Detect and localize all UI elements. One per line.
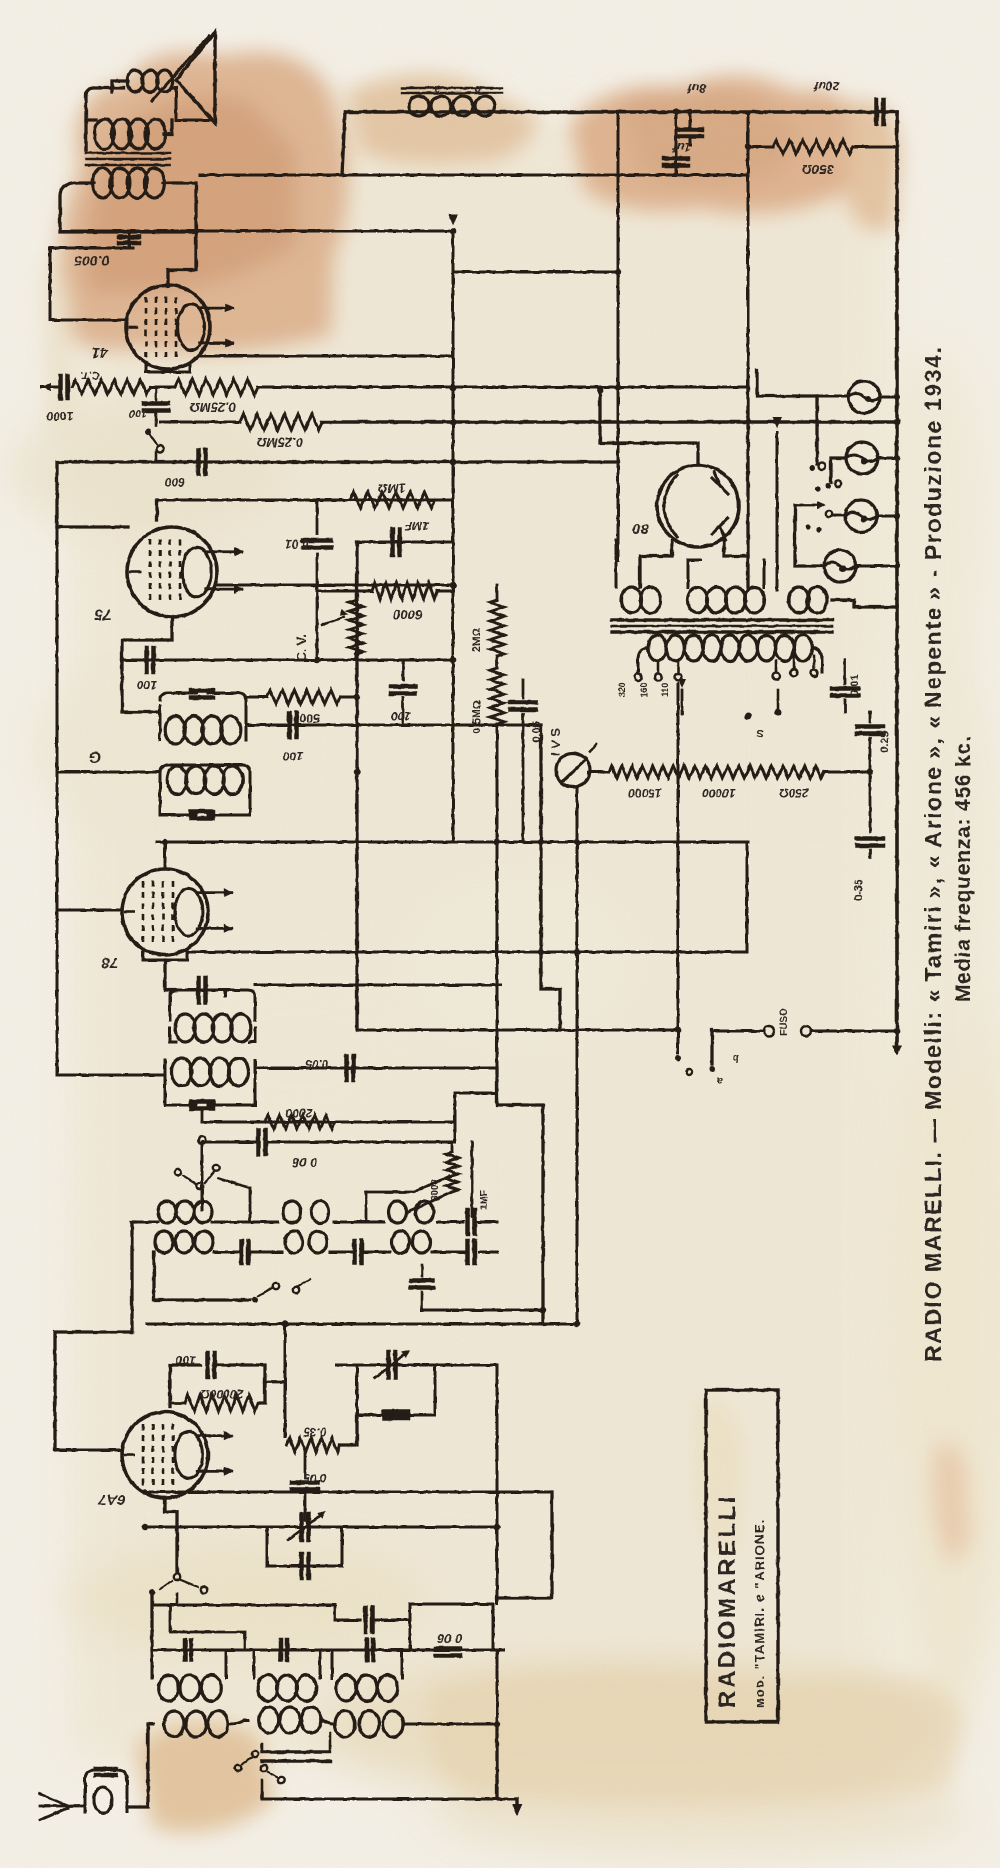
capacitor C2 8uf bbox=[689, 112, 692, 128]
wire x497 right column bbox=[496, 1365, 499, 1604]
wire y1650 long bbox=[152, 1649, 504, 1652]
wire rail step down bbox=[342, 112, 345, 175]
junction dots bbox=[894, 394, 900, 400]
svg-text:b: b bbox=[733, 1052, 739, 1063]
capacitor L9 cap bbox=[279, 1640, 284, 1660]
power transformer T2 primary winding bbox=[648, 635, 666, 661]
oscillator coil L3 row1 bbox=[283, 1201, 301, 1223]
capacitor osc row1 1MF bbox=[465, 1210, 470, 1234]
svg-text:1MF: 1MF bbox=[404, 519, 429, 533]
svg-text:a: a bbox=[717, 1075, 723, 1086]
output transformer T1 secondary box bbox=[60, 183, 196, 232]
wire y231 to OPT bbox=[60, 230, 453, 233]
lamp P1 bbox=[848, 381, 880, 413]
antenna primary coils bbox=[164, 1711, 184, 1737]
wire row2 right vert bbox=[496, 1068, 498, 1222]
svg-text:10000: 10000 bbox=[702, 786, 736, 800]
wire riser x366 bbox=[365, 1192, 368, 1222]
svg-text:100: 100 bbox=[128, 407, 147, 419]
wire tube78 grid bbox=[57, 909, 122, 912]
svg-text:C.T.: C.T. bbox=[80, 369, 100, 381]
IF T3 primary winding bbox=[167, 766, 187, 794]
antenna coil box bbox=[85, 1770, 127, 1812]
wire switch bus to coil bbox=[330, 1760, 338, 1762]
svg-text:1000: 1000 bbox=[46, 409, 73, 423]
wire x500 block bbox=[497, 1068, 543, 1324]
fuse FUSO bbox=[712, 1030, 764, 1033]
svg-text:110: 110 bbox=[660, 683, 670, 698]
svg-text:100: 100 bbox=[283, 749, 303, 763]
wire y1527 bbox=[145, 1526, 497, 1529]
wire 6A7 top to x285 bbox=[284, 1324, 287, 1437]
wire x678 mains down bbox=[677, 684, 680, 1030]
wire y1122 AVC bbox=[202, 1121, 455, 1124]
capacitor C17 0.05 bbox=[344, 1056, 349, 1080]
potentiometer C.V. bbox=[349, 600, 363, 654]
wire osc outer left bbox=[132, 1222, 135, 1332]
lamp P2 bbox=[846, 442, 878, 474]
capacitor row2 a bbox=[239, 1241, 244, 1263]
wire tube80 top bbox=[600, 390, 698, 465]
resistor chain y772 15000 bbox=[589, 771, 609, 774]
svg-text:0 05: 0 05 bbox=[303, 1471, 327, 1485]
svg-text:RADIOMARELLI: RADIOMARELLI bbox=[714, 1494, 741, 1708]
oscillator coil L5 row2 bbox=[155, 1231, 173, 1253]
wire y841 row bbox=[453, 841, 897, 843]
capacitor C11 IFT1 bbox=[191, 688, 213, 693]
capacitor C29 bbox=[334, 1605, 337, 1620]
svg-text:0.05: 0.05 bbox=[305, 1057, 329, 1071]
variable capacitor CT1 trim bbox=[386, 1352, 391, 1378]
resistor R2 bbox=[72, 380, 150, 394]
wire x497 down bbox=[496, 724, 499, 1068]
loop box CV1 bbox=[267, 1527, 342, 1566]
svg-text:0.01: 0.01 bbox=[285, 537, 309, 551]
capacitor C16 IFT4 bottom bbox=[191, 1099, 213, 1104]
wire second rail bbox=[200, 174, 748, 177]
svg-text:8uf: 8uf bbox=[687, 81, 706, 95]
capacitor C5 grid 1000 bbox=[42, 383, 51, 391]
wire tube78 cathode elbow bbox=[165, 960, 176, 990]
switch contacts 6A7 bbox=[174, 1574, 180, 1580]
svg-text:78: 78 bbox=[101, 954, 118, 971]
wire IFT4 left bbox=[57, 1074, 165, 1077]
svg-text:Media frequenza: 456 kc.: Media frequenza: 456 kc. bbox=[952, 735, 975, 1002]
wire grid cap vertical x157 bbox=[155, 500, 158, 520]
wire tube75 cathode elbow bbox=[122, 617, 172, 660]
wire right rail bbox=[895, 112, 899, 1048]
svg-text:0.5MΩ: 0.5MΩ bbox=[471, 700, 483, 733]
wire osc row2 left edge bbox=[154, 1252, 250, 1300]
wire y462 line bbox=[57, 462, 618, 527]
power transformer T2 right winding bbox=[789, 587, 809, 613]
power transformer T2 HV middle winding bbox=[688, 587, 708, 613]
primary taps bbox=[635, 674, 642, 681]
wire tube78 plate y952 bbox=[187, 951, 747, 954]
capacitor C25 100 bbox=[170, 1365, 200, 1407]
wire x577 top bbox=[576, 787, 578, 842]
wire tube75 grid top bbox=[57, 525, 128, 528]
output transformer T1 primary winding bbox=[95, 119, 115, 149]
wire y842 long bbox=[157, 841, 748, 844]
svg-text:a: a bbox=[434, 83, 440, 95]
resistor R11 3000 vertical bbox=[446, 1152, 458, 1192]
svg-text:0 06: 0 06 bbox=[437, 1631, 463, 1646]
tube V3 75 envelope bbox=[127, 527, 217, 617]
wire x497 box to chain bbox=[496, 1650, 499, 1724]
wire y1030 FUSO line bbox=[357, 1029, 678, 1032]
resistor R4 0.25M second bbox=[160, 421, 240, 424]
svg-text:100: 100 bbox=[391, 709, 411, 723]
phono jack IVS bbox=[556, 753, 590, 787]
choke L1 on top rail bbox=[409, 96, 429, 116]
switch S1 contacts bbox=[155, 413, 158, 425]
svg-text:75: 75 bbox=[94, 606, 111, 623]
wire bottom y1799 bbox=[262, 1798, 497, 1801]
capacitor C22 90.0 osc bbox=[201, 1144, 204, 1210]
capacitor C12 100 bbox=[287, 713, 292, 737]
wire tube80 plate right bbox=[724, 541, 748, 587]
svg-text:G: G bbox=[89, 748, 101, 765]
capacitor C13 100 bbox=[402, 660, 405, 680]
wire y1520 c bbox=[305, 1519, 497, 1521]
svg-text:80: 80 bbox=[632, 520, 649, 537]
capacitor C6 100 bbox=[155, 387, 158, 400]
wire y1365 trimmer line bbox=[336, 1364, 497, 1367]
variable capacitor CV1 bbox=[144, 1492, 146, 1527]
capacitor C24 bbox=[421, 1265, 424, 1276]
wire osc row2 bbox=[153, 1251, 156, 1254]
resistor R10 2000 bbox=[265, 1115, 335, 1129]
capacitor C23 1MF osc lead bbox=[471, 1142, 474, 1216]
tube V5 80 rectifier envelope bbox=[657, 465, 739, 547]
wire y1605 bbox=[152, 1604, 335, 1607]
wire grid line y387 bbox=[150, 386, 175, 389]
svg-text:6000: 6000 bbox=[393, 607, 423, 622]
switch S2 contacts bbox=[745, 713, 752, 720]
wire riser switch to row1 bbox=[218, 1178, 250, 1188]
IF T3 secondary winding bbox=[165, 716, 185, 744]
capacitor C26 pad bbox=[384, 1409, 408, 1414]
arrow mains bbox=[681, 690, 684, 714]
output transformer T1 primary box bbox=[86, 88, 124, 150]
wire y1492 long bbox=[145, 1491, 552, 1494]
IF transformer T4 secondary box bbox=[165, 1060, 255, 1105]
wire y1324 bbox=[147, 1323, 577, 1326]
wire top rail B+ bbox=[345, 110, 897, 114]
wire tube80 plate left bbox=[640, 541, 672, 587]
capacitor C30 bbox=[436, 1646, 460, 1651]
lamp P4 bbox=[824, 550, 856, 582]
svg-text:100: 100 bbox=[176, 1353, 196, 1367]
RF coil box L8 bbox=[225, 1650, 228, 1678]
tube V4 41 envelope bbox=[126, 285, 210, 369]
svg-text:2000: 2000 bbox=[285, 1106, 313, 1120]
resistor chain 10000 bbox=[681, 766, 758, 778]
capacitor C4 20uf on top rail bbox=[874, 100, 879, 124]
trimmer loop box bbox=[357, 1365, 435, 1415]
wire speaker to transformer bbox=[112, 81, 128, 92]
tube V1 6A7 envelope bbox=[122, 1412, 208, 1498]
wire tube41 plate to transformer bbox=[168, 232, 196, 286]
wire left box edge bbox=[49, 248, 52, 320]
resistor R13 0.35 bbox=[287, 1438, 340, 1452]
wire osc row1 bbox=[135, 1221, 158, 1224]
wire vertical x748 bbox=[747, 112, 750, 387]
IF transformer T3 secondary box bbox=[160, 693, 246, 740]
oscillator coil L4 row1 bbox=[389, 1201, 407, 1223]
svg-text:0.25MΩ: 0.25MΩ bbox=[257, 435, 303, 450]
resistor R12 20000 bbox=[185, 1395, 258, 1411]
capacitor C21 0.05 IVS bbox=[522, 680, 525, 698]
wire y387 to x748 bbox=[618, 386, 748, 388]
capacitor C19 0.25 bbox=[869, 712, 872, 722]
svg-text:100: 100 bbox=[137, 678, 157, 692]
svg-text:1MΩ: 1MΩ bbox=[378, 481, 406, 496]
wire B+ vertical with arrow bbox=[776, 432, 779, 590]
tube V2 78 envelope bbox=[122, 869, 208, 955]
IF transformer T4 primary box bbox=[170, 990, 255, 1020]
wire tube78 top bbox=[164, 842, 167, 869]
capacitor C18 0.01 mains bbox=[844, 660, 847, 684]
capacitor C7 600 bbox=[196, 450, 201, 474]
wire y356 tube41 bbox=[200, 355, 453, 358]
svg-text:2MΩ: 2MΩ bbox=[471, 628, 483, 652]
output transformer T1 core bbox=[86, 152, 170, 155]
wire y272 screen bbox=[453, 271, 618, 274]
capacitor L10 cap bbox=[365, 1640, 370, 1660]
resistor R8 0.5M vertical bbox=[490, 668, 504, 724]
wire y949 long bbox=[187, 951, 747, 953]
svg-text:FUSO: FUSO bbox=[779, 1008, 790, 1036]
svg-text:C. V.: C. V. bbox=[294, 634, 309, 662]
power transformer T2 HV left winding bbox=[615, 560, 618, 587]
svg-text:160: 160 bbox=[639, 682, 649, 697]
wire diagonal R11 bbox=[408, 1192, 452, 1212]
capacitor C15 cathode 78 bbox=[196, 978, 201, 1002]
band switch bottom contacts bbox=[235, 1765, 241, 1771]
oscillator coil L7 row2 bbox=[392, 1231, 410, 1253]
tube78 base bbox=[143, 950, 187, 960]
svg-text:20000Ω: 20000Ω bbox=[200, 1387, 244, 1401]
ground GND bbox=[497, 1798, 517, 1801]
svg-text:I V S: I V S bbox=[548, 728, 563, 757]
svg-text:0 06: 0 06 bbox=[292, 1155, 318, 1170]
capacitor L8 cap bbox=[183, 1640, 188, 1660]
wire x747 psu down bbox=[746, 842, 749, 952]
capacitor C28 pad bbox=[299, 1554, 304, 1578]
wire y985 from IFT3 bbox=[255, 984, 500, 987]
wire tube75 plate y585 bbox=[217, 584, 453, 587]
resistor R1 350 ohm bbox=[748, 146, 773, 149]
RF coil box L10 bbox=[331, 1650, 334, 1678]
svg-text:ᴍᴏᴅ. "TAMIRI. e "ARIONE.: ᴍᴏᴅ. "TAMIRI. e "ARIONE. bbox=[752, 1519, 767, 1708]
svg-text:RADIO MARELLI. — Modelli: « Ta: RADIO MARELLI. — Modelli: « Tamiri », « … bbox=[920, 345, 946, 1362]
wire x541 down bbox=[541, 725, 560, 1030]
capacitor C9 1MF bbox=[357, 541, 453, 544]
capacitor ant cap bbox=[96, 1767, 116, 1772]
svg-text:0.005: 0.005 bbox=[74, 253, 109, 269]
capacitor C3 1uf to second rail bbox=[675, 145, 678, 175]
wire ant coil chain bbox=[148, 1720, 497, 1724]
svg-text:600: 600 bbox=[165, 475, 185, 489]
wire y1632 bbox=[170, 1605, 245, 1648]
wire vertical x618 bbox=[617, 112, 620, 560]
speaker voice coil bbox=[127, 70, 143, 92]
wire IFT1 left elbow bbox=[122, 660, 160, 712]
IF T4 primary winding bbox=[175, 1014, 195, 1042]
resistor R7 2M vertical bbox=[490, 600, 504, 656]
svg-text:350Ω: 350Ω bbox=[802, 162, 834, 177]
svg-text:S: S bbox=[756, 727, 764, 739]
svg-text:0.35: 0.35 bbox=[303, 1425, 327, 1439]
tube41 base bbox=[146, 364, 190, 372]
svg-text:0.25: 0.25 bbox=[879, 731, 891, 752]
wire x455 elbow bbox=[454, 1093, 457, 1142]
wire y500 1M line bbox=[157, 499, 453, 502]
svg-text:15000: 15000 bbox=[628, 786, 662, 800]
wire x357 long vertical bbox=[355, 542, 358, 1030]
wire IFT2 left to rail bbox=[57, 771, 160, 774]
svg-text:320: 320 bbox=[617, 682, 627, 697]
wire y1310 bbox=[505, 1309, 543, 1312]
capacitor C8 0.01 bbox=[316, 500, 319, 534]
switch contacts osc bbox=[175, 1169, 181, 1175]
wire x500 chain bbox=[496, 949, 498, 956]
wire ant to bank bbox=[127, 1724, 148, 1807]
wire jack down bbox=[576, 787, 579, 1325]
svg-text:0-35: 0-35 bbox=[853, 879, 865, 901]
switch bus bars bbox=[262, 1750, 330, 1753]
box 90 0 bottom bbox=[410, 1604, 493, 1650]
resistor R5 1M bbox=[350, 492, 435, 508]
capacitor C20 0.35 bbox=[857, 836, 883, 841]
wire IFT2 bottom to y842 bbox=[156, 815, 158, 842]
IF T4 secondary winding bbox=[172, 1058, 192, 1086]
svg-text:6A7: 6A7 bbox=[98, 1491, 126, 1508]
tube 6A7 cathode down bbox=[165, 1498, 177, 1572]
output transformer T1 secondary winding bbox=[93, 168, 113, 198]
svg-text:250Ω: 250Ω bbox=[779, 786, 810, 800]
wire vertical x676-top bbox=[675, 112, 678, 145]
wire IFT4 right y1073 bbox=[255, 1067, 497, 1070]
wire diagonal to 3000 bbox=[414, 1176, 449, 1192]
svg-text:20uf: 20uf bbox=[814, 79, 841, 93]
resistor chain 250 bbox=[758, 766, 824, 778]
wire left rail bbox=[56, 462, 59, 1075]
resistor R9 50000 bbox=[246, 696, 267, 699]
svg-text:0.25MΩ: 0.25MΩ bbox=[190, 400, 236, 415]
switch contacts osc row2 bbox=[252, 1297, 258, 1303]
resistor R3 0.25M bbox=[175, 379, 258, 395]
oscillator coil L2 row1 bbox=[158, 1201, 176, 1223]
arrow right rail end bbox=[892, 1045, 902, 1056]
svg-text:b: b bbox=[474, 83, 481, 95]
resistor R6 6000 bbox=[317, 597, 372, 599]
capacitor C1 500.0 across secondary bbox=[128, 232, 131, 248]
variable capacitor CV1 sym bbox=[299, 1514, 304, 1540]
wire x778 switch down bbox=[710, 1030, 713, 1064]
wire IFT1 right y725 bbox=[246, 724, 541, 727]
wire 5V to lamps bbox=[832, 600, 897, 607]
svg-text:1MF: 1MF bbox=[479, 1190, 490, 1210]
capacitor C14 IFT2 bottom bbox=[191, 809, 213, 814]
wire tube41 grid left bbox=[50, 319, 127, 322]
wire x500 segments bbox=[496, 949, 498, 956]
wire y660 bbox=[122, 659, 453, 662]
antenna ANT symbol bbox=[40, 1794, 68, 1820]
capacitor row2 b bbox=[352, 1241, 357, 1263]
power transformer T2 core bbox=[612, 618, 832, 621]
svg-text:41: 41 bbox=[92, 344, 110, 361]
RF coil box L9 bbox=[253, 1650, 256, 1678]
wire ant chain right down bbox=[495, 1724, 498, 1799]
capacitor C10 100 cathode bbox=[144, 648, 149, 672]
capacitor C27 50.0 bbox=[304, 1452, 307, 1478]
IF transformer T3 primary box bbox=[160, 765, 250, 815]
capacitor row2 c bbox=[465, 1241, 470, 1263]
svg-text:0.01: 0.01 bbox=[849, 674, 861, 695]
speaker LS1 (cone + frame) bbox=[176, 32, 215, 123]
wire plate feed vertical x453 bbox=[452, 231, 455, 842]
label box RADIOMARELLI frame bbox=[706, 1390, 778, 1722]
lamp P3 bbox=[845, 500, 877, 532]
arrow B+ takeoff bbox=[448, 214, 458, 225]
oscillator coil L6 row2 bbox=[285, 1231, 303, 1253]
wire 6A7 grid bbox=[55, 1449, 122, 1452]
